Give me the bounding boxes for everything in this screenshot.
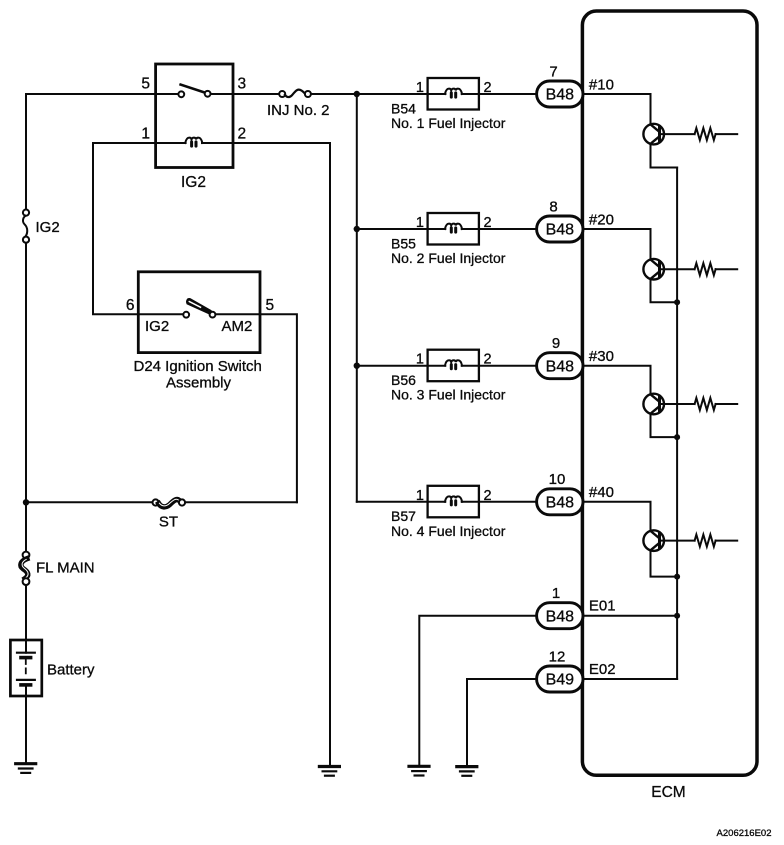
wire: Q3 base lead: [660, 403, 695, 405]
svg-text:B48: B48: [546, 608, 575, 625]
ground E02: [457, 767, 477, 776]
svg-text:B48: B48: [546, 494, 575, 511]
wire: ignition switch pin5 to ST row: [260, 314, 297, 502]
wire: ECM internal #30 row: [581, 366, 651, 395]
relay coil: [185, 138, 202, 148]
wire: relay coil row left: [93, 142, 186, 144]
svg-text:10: 10: [549, 471, 566, 488]
svg-text:D24 Ignition Switch: D24 Ignition Switch: [134, 358, 262, 375]
ground battery: [16, 764, 36, 773]
svg-text:#20: #20: [589, 211, 614, 228]
transistor Q3: [643, 394, 664, 415]
svg-text:INJ No. 2: INJ No. 2: [267, 102, 330, 119]
svg-text:B56: B56: [391, 372, 416, 388]
svg-text:3: 3: [238, 76, 247, 93]
resistor R3: [695, 398, 716, 410]
node: injector 2 branch: [354, 226, 360, 232]
svg-text:B55: B55: [391, 235, 416, 251]
injector B56: [357, 350, 537, 382]
wire: relay coil row right to pin2 drop: [202, 142, 330, 144]
resistor R4: [695, 535, 716, 547]
injector B57: [357, 486, 537, 518]
svg-text:A206216E02: A206216E02: [717, 828, 772, 839]
svg-text:B54: B54: [391, 100, 416, 116]
ground relay pin2: [319, 767, 339, 776]
svg-text:2: 2: [484, 80, 492, 96]
transistor Q1: [643, 124, 664, 145]
connector B49 pin12 E02: [537, 666, 583, 692]
svg-text:ST: ST: [159, 514, 178, 531]
svg-text:IG2: IG2: [145, 318, 169, 335]
svg-text:E02: E02: [589, 661, 616, 678]
ECM box: [582, 11, 757, 775]
svg-text:IG2: IG2: [36, 219, 60, 236]
wire: Q1 base lead: [660, 133, 695, 135]
svg-text:1: 1: [141, 126, 150, 143]
injector B54: [357, 78, 537, 110]
wire: ECM internal #40 row: [581, 502, 651, 531]
ignition switch lever: [186, 298, 212, 314]
svg-text:No. 2 Fuel Injector: No. 2 Fuel Injector: [391, 250, 506, 266]
injector B55: [357, 213, 537, 245]
wire: ECM internal #20 row: [581, 229, 651, 260]
svg-text:Assembly: Assembly: [166, 375, 232, 392]
wire: R1 right lead: [716, 133, 738, 135]
svg-text:B49: B49: [546, 672, 575, 689]
wire: E01 to ground: [419, 616, 536, 767]
svg-text:2: 2: [484, 352, 492, 368]
wire: ECM internal E01 row: [581, 615, 677, 617]
svg-text:#10: #10: [589, 76, 614, 93]
connector B48 pin7: [537, 81, 583, 107]
svg-text:6: 6: [126, 297, 135, 314]
svg-text:5: 5: [141, 76, 150, 93]
svg-text:No. 4 Fuel Injector: No. 4 Fuel Injector: [391, 523, 506, 539]
svg-text:7: 7: [549, 63, 557, 80]
connector B48 pin1 E01: [537, 603, 583, 629]
svg-text:No. 3 Fuel Injector: No. 3 Fuel Injector: [391, 387, 506, 403]
resistor R2: [695, 263, 716, 275]
svg-text:2: 2: [238, 126, 247, 143]
fusible link IG2: [23, 210, 29, 243]
node: injector 3 branch: [354, 363, 360, 369]
svg-text:1: 1: [416, 488, 424, 504]
node: junction ST branch: [23, 499, 29, 505]
fusible link FL MAIN: [21, 552, 30, 585]
svg-text:12: 12: [549, 648, 566, 665]
svg-text:8: 8: [549, 198, 557, 215]
connector B48 pin9: [537, 353, 583, 379]
node: injector bus top: [354, 91, 360, 97]
relay IG2 box: [156, 64, 233, 168]
svg-text:B57: B57: [391, 508, 416, 524]
wire: ST row right segment: [185, 501, 297, 503]
wire: Q4 base lead: [660, 540, 695, 542]
battery: [10, 640, 41, 696]
svg-text:E01: E01: [589, 598, 616, 615]
fusible link ST: [153, 499, 186, 507]
wire: R2 right lead: [716, 268, 738, 270]
svg-text:IG2: IG2: [181, 174, 206, 191]
ignition switch contacts: [138, 312, 260, 318]
wire: emitter bus vertical: [676, 168, 678, 680]
node: Q4 emitter junction: [674, 574, 680, 580]
wire: ECM internal #10 row: [581, 94, 651, 125]
wire: left vertical x=26 from FL MAIN to battery: [25, 585, 27, 641]
svg-text:1: 1: [416, 80, 424, 96]
node: Q3 emitter junction: [674, 434, 680, 440]
svg-text:1: 1: [552, 585, 560, 602]
svg-text:9: 9: [552, 335, 560, 352]
svg-text:AM2: AM2: [222, 318, 253, 335]
svg-text:#30: #30: [589, 348, 614, 365]
node: E01 bus junction: [674, 613, 680, 619]
wire: ST row left segment: [26, 501, 153, 503]
wire: left vertical main x=26 upper: [25, 94, 27, 209]
transistor Q4: [643, 530, 664, 551]
wire: E02 to ground: [467, 679, 537, 767]
svg-text:Battery: Battery: [47, 662, 95, 679]
svg-text:2: 2: [484, 488, 492, 504]
svg-text:FL MAIN: FL MAIN: [36, 560, 95, 577]
wire: Q4 emitter to bus: [651, 550, 678, 577]
wire: R3 right lead: [716, 403, 738, 405]
wire: Q2 base lead: [660, 268, 695, 270]
wire: battery feed top horizontal to relay pin 5: [26, 93, 178, 95]
wire: relay pin1 to ignition switch pin 6: [93, 143, 138, 314]
svg-text:B48: B48: [546, 358, 575, 375]
svg-text:2: 2: [484, 215, 492, 231]
ignition switch D24 box: [138, 272, 260, 353]
wire: R4 right lead: [716, 540, 738, 542]
wire: Q1 emitter to bus: [651, 144, 678, 168]
svg-text:5: 5: [266, 297, 275, 314]
wire: Q2 emitter to bus: [651, 279, 678, 303]
connector B48 pin8: [537, 216, 583, 242]
svg-text:1: 1: [416, 352, 424, 368]
svg-text:B48: B48: [546, 87, 575, 104]
wire: battery to ground: [25, 696, 27, 764]
wire: relay internal pin3 side: [211, 93, 280, 95]
wire: Q3 emitter to bus: [651, 414, 678, 438]
svg-text:No. 1 Fuel Injector: No. 1 Fuel Injector: [391, 115, 506, 131]
connector B48 pin10: [537, 489, 583, 515]
wire: injector bus vertical: [356, 94, 358, 502]
svg-text:#40: #40: [589, 484, 614, 501]
wire: relay pin2 down to ground: [329, 143, 331, 767]
svg-text:ECM: ECM: [651, 784, 685, 801]
wire: fuse to injector 1: [311, 93, 445, 95]
fusible link INJ No. 2: [279, 90, 311, 97]
wire: ECM internal E02 row: [581, 678, 677, 680]
node: Q2 emitter junction: [674, 299, 680, 305]
relay switch contacts: [178, 85, 210, 98]
wire: left vertical x=26 between IG2 fuse and FL MAIN: [25, 243, 27, 552]
resistor R1: [695, 128, 716, 140]
svg-text:B48: B48: [546, 222, 575, 239]
transistor Q2: [643, 259, 664, 280]
svg-text:1: 1: [416, 215, 424, 231]
ground E01: [409, 766, 429, 775]
